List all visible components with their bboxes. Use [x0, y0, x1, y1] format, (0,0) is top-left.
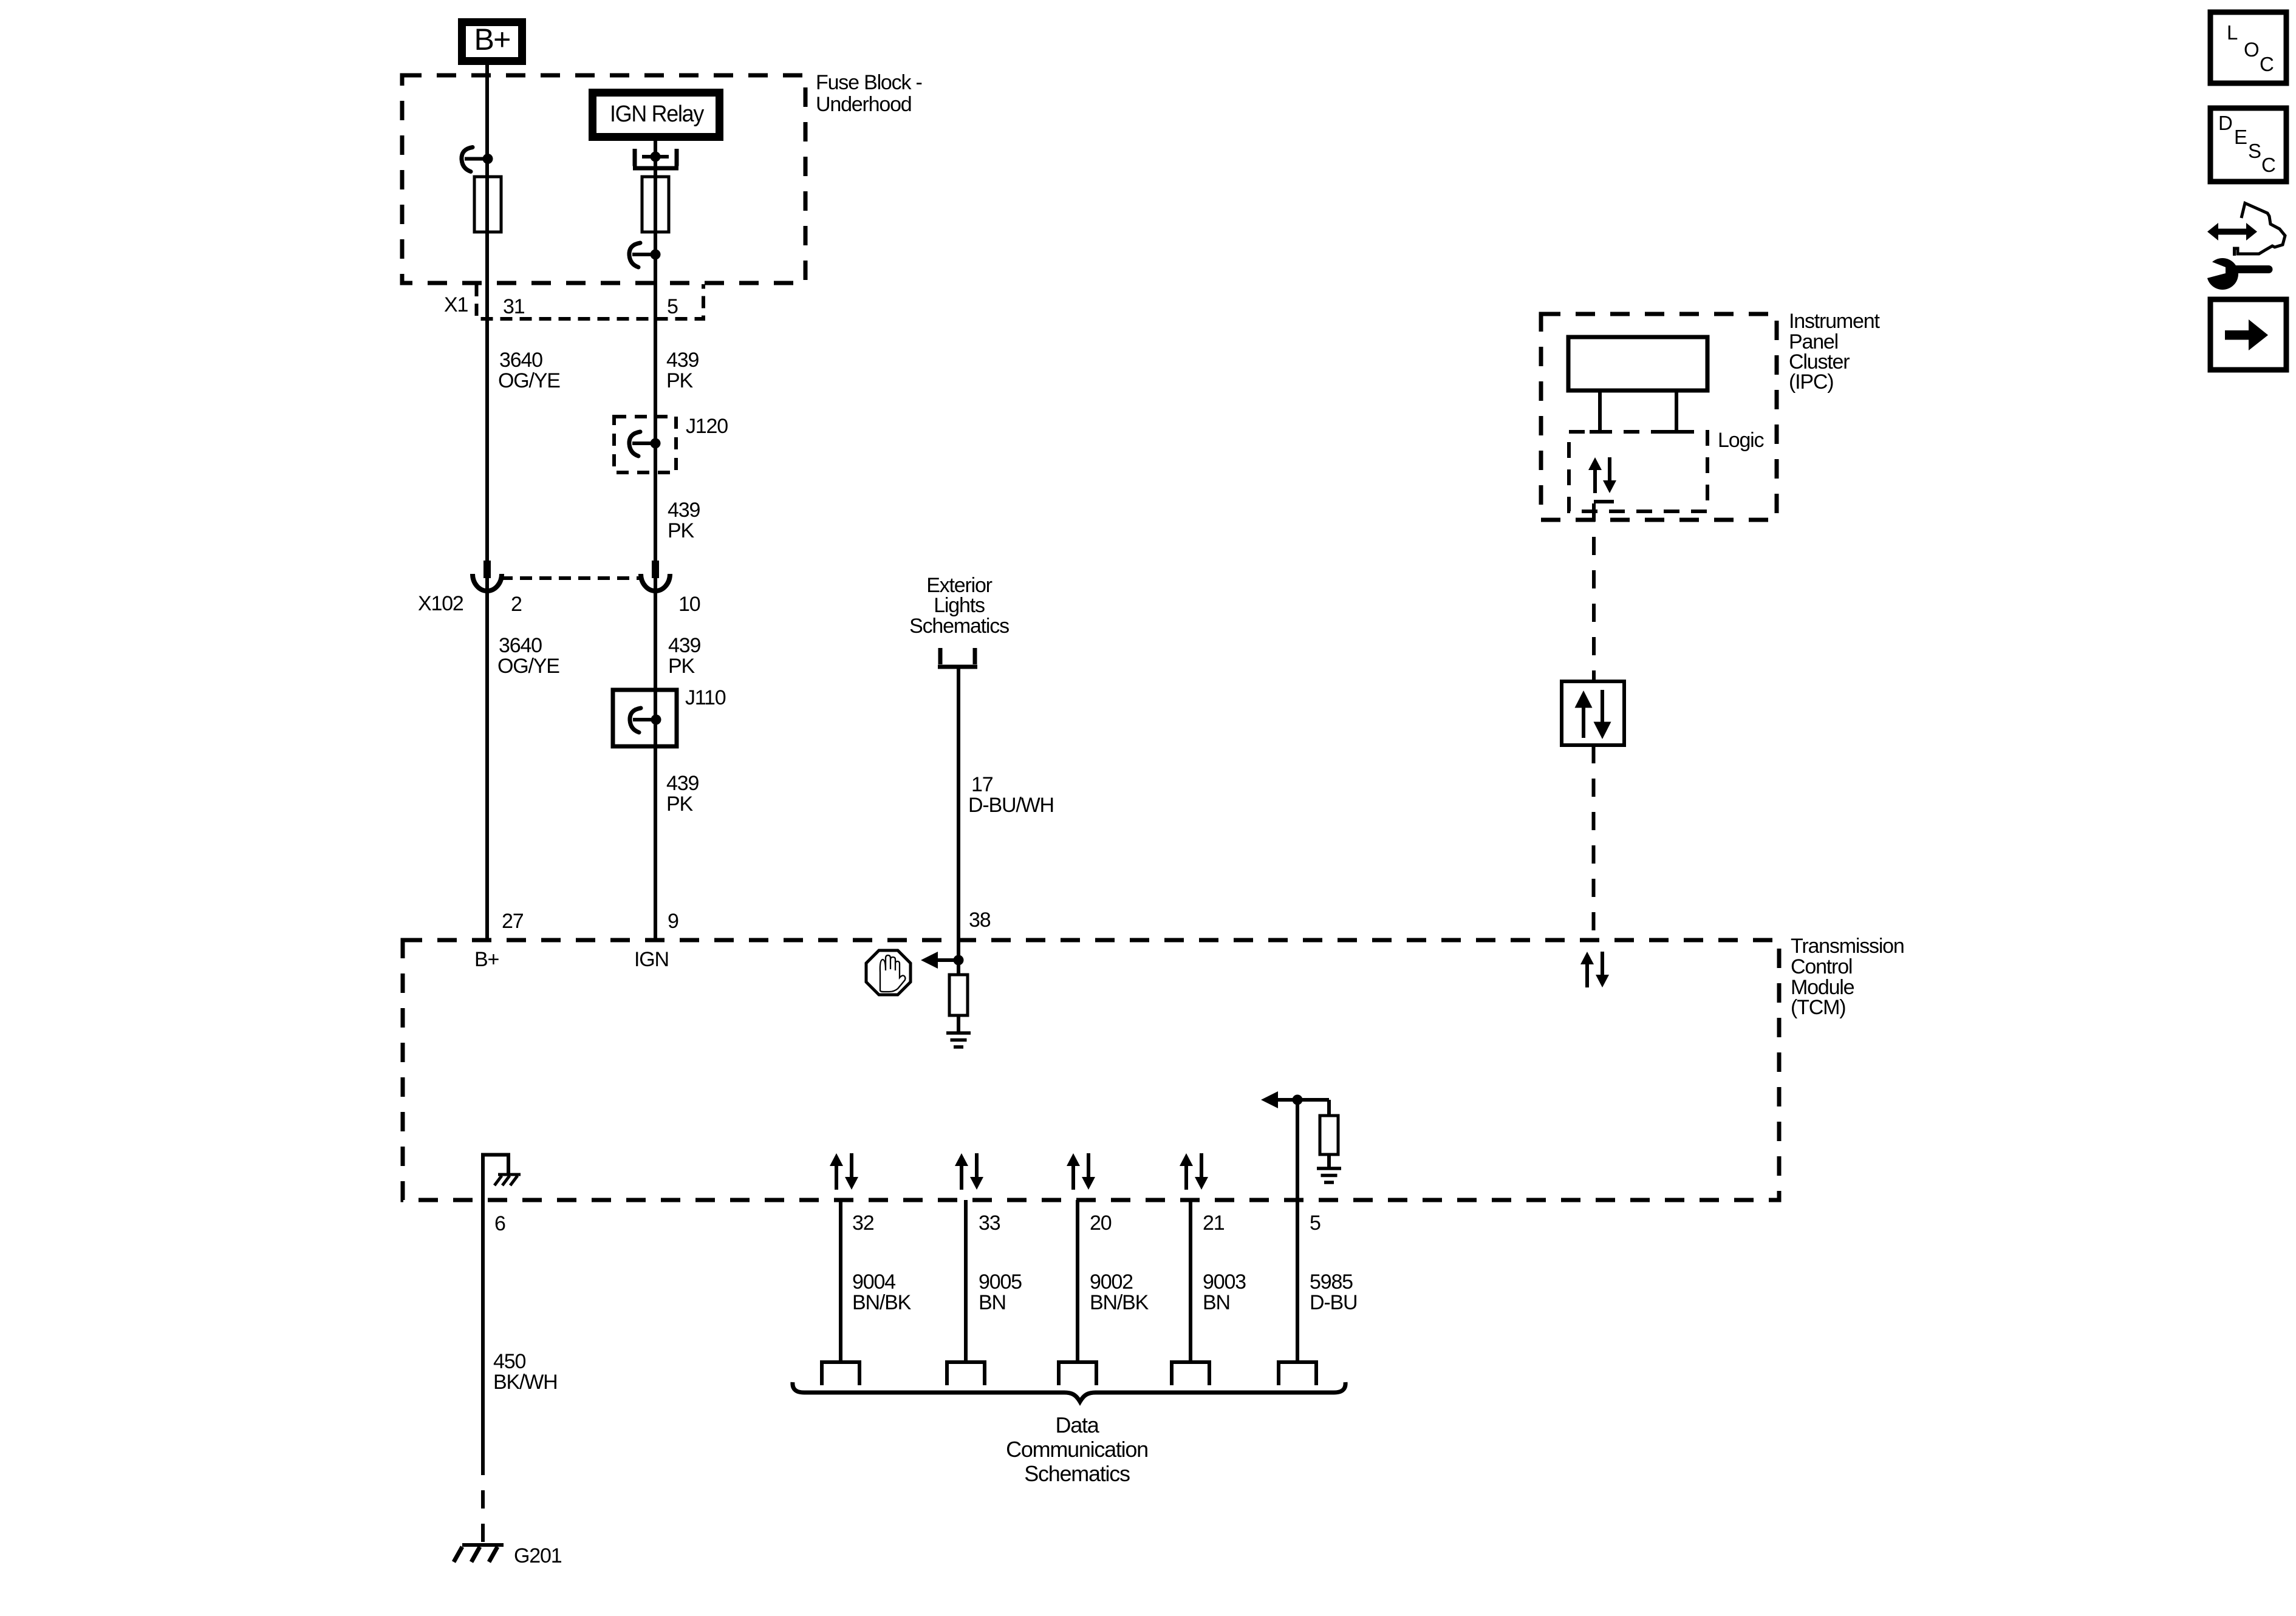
- svg-text:5: 5: [667, 295, 678, 318]
- svg-text:BN: BN: [979, 1291, 1006, 1314]
- svg-text:439: 439: [668, 499, 700, 522]
- svg-text:J110: J110: [685, 686, 726, 709]
- svg-text:Instrument: Instrument: [1789, 310, 1880, 333]
- svg-text:C: C: [2261, 154, 2275, 176]
- svg-text:OG/YE: OG/YE: [497, 655, 559, 678]
- svg-text:450: 450: [493, 1350, 525, 1373]
- svg-text:OG/YE: OG/YE: [498, 369, 560, 392]
- svg-text:BN/BK: BN/BK: [852, 1291, 912, 1314]
- svg-text:9: 9: [668, 910, 678, 933]
- svg-text:Transmission: Transmission: [1791, 935, 1904, 958]
- svg-text:E: E: [2234, 126, 2247, 148]
- svg-text:J120: J120: [686, 415, 728, 438]
- svg-text:L: L: [2227, 21, 2238, 44]
- svg-text:31: 31: [503, 295, 525, 318]
- svg-text:5985: 5985: [1310, 1270, 1353, 1294]
- svg-text:Fuse Block -: Fuse Block -: [816, 71, 922, 94]
- svg-text:B+: B+: [474, 948, 499, 971]
- svg-text:2: 2: [511, 593, 522, 616]
- svg-text:IGN: IGN: [634, 948, 669, 971]
- svg-text:20: 20: [1090, 1212, 1112, 1235]
- svg-text:3640: 3640: [499, 634, 542, 657]
- svg-text:Data: Data: [1055, 1413, 1099, 1437]
- svg-text:439: 439: [666, 349, 699, 372]
- svg-text:32: 32: [852, 1212, 874, 1235]
- svg-text:9003: 9003: [1203, 1270, 1246, 1294]
- svg-text:21: 21: [1203, 1212, 1225, 1235]
- svg-text:9004: 9004: [852, 1270, 895, 1294]
- svg-text:9005: 9005: [979, 1270, 1022, 1294]
- svg-text:3640: 3640: [499, 349, 542, 372]
- svg-text:5: 5: [1310, 1212, 1321, 1235]
- svg-text:S: S: [2248, 140, 2261, 162]
- svg-text:439: 439: [668, 634, 700, 657]
- svg-text:D: D: [2218, 112, 2232, 134]
- svg-text:C: C: [2260, 53, 2274, 75]
- svg-text:PK: PK: [668, 519, 694, 542]
- svg-text:G201: G201: [514, 1544, 562, 1567]
- svg-text:BN: BN: [1203, 1291, 1230, 1314]
- svg-text:(IPC): (IPC): [1789, 370, 1833, 394]
- svg-text:B+: B+: [474, 22, 510, 56]
- svg-text:IGN Relay: IGN Relay: [610, 101, 704, 127]
- svg-text:Underhood: Underhood: [816, 93, 912, 116]
- svg-text:D-BU: D-BU: [1310, 1291, 1357, 1314]
- svg-text:PK: PK: [666, 369, 693, 392]
- svg-text:Schematics: Schematics: [1024, 1461, 1130, 1486]
- svg-text:439: 439: [666, 772, 699, 795]
- svg-text:Schematics: Schematics: [909, 615, 1009, 638]
- svg-text:38: 38: [969, 909, 991, 932]
- svg-text:Control: Control: [1791, 955, 1852, 978]
- svg-text:(TCM): (TCM): [1791, 996, 1845, 1019]
- svg-text:Communication: Communication: [1006, 1437, 1148, 1462]
- svg-text:33: 33: [979, 1212, 1000, 1235]
- svg-text:10: 10: [678, 593, 700, 616]
- svg-text:6: 6: [494, 1212, 505, 1235]
- svg-text:Lights: Lights: [934, 594, 985, 617]
- svg-text:27: 27: [502, 910, 524, 933]
- svg-text:PK: PK: [666, 793, 693, 816]
- svg-text:PK: PK: [668, 655, 695, 678]
- svg-text:9002: 9002: [1090, 1270, 1133, 1294]
- svg-text:BN/BK: BN/BK: [1090, 1291, 1149, 1314]
- svg-text:X1: X1: [444, 293, 468, 316]
- svg-text:BK/WH: BK/WH: [493, 1371, 558, 1394]
- svg-text:17: 17: [971, 773, 993, 796]
- svg-text:O: O: [2244, 38, 2259, 61]
- svg-text:Logic: Logic: [1718, 429, 1765, 452]
- svg-text:X102: X102: [418, 592, 463, 615]
- svg-text:D-BU/WH: D-BU/WH: [968, 794, 1054, 817]
